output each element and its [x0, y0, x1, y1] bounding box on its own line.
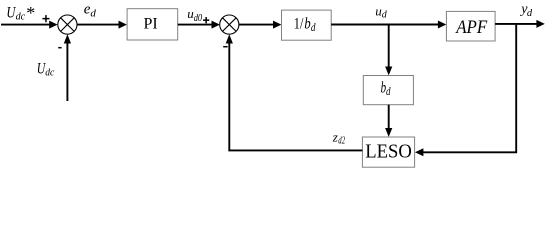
- block 1/bd: [282, 10, 332, 40]
- label y_d: [519, 2, 533, 19]
- svg-text:d0: d0: [194, 13, 202, 24]
- minus sign at S2: [223, 46, 227, 48]
- label U_dc: [37, 60, 54, 78]
- plus sign at S2: [203, 17, 209, 23]
- wire S2 to 1/bd block: [239, 21, 282, 29]
- plus sign at S1: [42, 15, 49, 22]
- wire Udc feedback into S1: [64, 34, 71, 101]
- wire branch from u_d node down to bd block: [385, 25, 392, 76]
- svg-text:d: d: [527, 8, 533, 19]
- wire APF to output y_d: [495, 20, 545, 28]
- wire bd to LESO: [385, 105, 392, 137]
- wire input to summing junction S1: [1, 21, 58, 29]
- label Udc* (reference input): [6, 3, 35, 23]
- svg-text:1/: 1/: [294, 15, 304, 32]
- svg-text:d: d: [386, 86, 391, 98]
- label u_d: [375, 4, 388, 21]
- label e_d: [84, 1, 97, 19]
- minus sign at S1: [58, 47, 61, 49]
- svg-text:*: *: [26, 3, 35, 23]
- summing junction S2: [220, 15, 239, 34]
- svg-text:dc: dc: [45, 67, 54, 79]
- svg-text:APF: APF: [454, 18, 487, 38]
- label z_d2: [332, 130, 345, 147]
- svg-text:PI: PI: [143, 15, 157, 32]
- svg-text:b: b: [304, 16, 310, 33]
- wire LESO output z_d2 back up to S2: [226, 34, 363, 150]
- svg-text:LESO: LESO: [365, 140, 412, 162]
- svg-text:d: d: [311, 22, 316, 34]
- svg-text:dc: dc: [16, 11, 26, 23]
- block bd: [363, 76, 413, 105]
- wire 1/bd to APF: [331, 21, 446, 29]
- summing junction S1: [58, 15, 77, 34]
- wire PI to S2: [178, 21, 220, 29]
- svg-text:z: z: [332, 130, 338, 145]
- block PI: [127, 9, 178, 40]
- block APF: [446, 11, 495, 41]
- block LESO: [362, 137, 414, 167]
- wire y_d feedback down and into LESO right side: [415, 24, 516, 156]
- wire S1 to PI: [77, 21, 127, 29]
- label u_d0: [187, 6, 202, 24]
- svg-text:d: d: [90, 7, 96, 19]
- svg-text:d2: d2: [338, 136, 345, 147]
